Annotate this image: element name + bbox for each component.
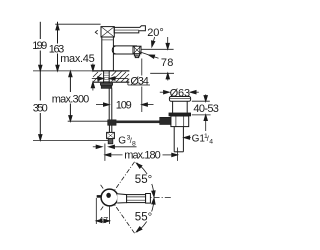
drain nut top band [169,113,191,116]
max.45 arrows [92,64,94,67]
drain body [172,101,174,113]
drain flange [169,97,190,102]
svg-text:max.300: max.300 [52,94,90,106]
plan view lever cone [117,194,126,203]
plan view left stub [97,195,102,198]
svg-text:20°: 20° [147,27,164,39]
109 extension line from aerator [141,59,143,76]
plan view lever bar [127,195,146,203]
svg-text:max.45: max.45 [60,53,94,65]
350 bottom reference line (hose end level) [33,139,108,141]
svg-text:40-53: 40-53 [193,103,219,115]
plan view swivel ray upper [101,161,136,210]
dimension 350 line [39,71,41,101]
plan view 47 dimension [95,198,97,224]
aerator [133,46,141,54]
dimension max.300 line [69,76,71,92]
svg-text:4: 4 [209,139,213,146]
hose union nut [107,132,115,138]
label G1 1/4 [184,136,190,139]
dimension 109 [96,104,104,106]
deck hatching left [93,72,102,82]
label 55 upper [135,174,153,184]
label G3/8 with leader [93,146,96,148]
plan view center dot [106,193,111,198]
pop-up rod below deck [108,88,110,119]
rod junction [108,120,116,126]
rod lower section [108,125,110,132]
svg-text:Ø34: Ø34 [130,75,149,87]
dimension 40-53 [192,100,210,102]
dimension 199 line [39,22,41,39]
svg-text:G: G [118,135,126,146]
svg-text:350: 350 [33,103,48,115]
spout [112,46,137,54]
label 55 lower [135,212,153,222]
dimension Ø63 [160,91,164,93]
svg-text:max.180: max.180 [124,150,161,162]
plan view axis centerline [120,197,173,199]
plan view lever tip [146,194,151,204]
20 degree vertical arrow [167,37,169,43]
plan view arc lower [137,200,154,232]
svg-text:8: 8 [132,140,136,147]
svg-text:55°: 55° [135,174,152,186]
linkage attachment on drain [160,117,171,124]
deck top line [33,70,93,72]
max.300 bottom reference line [68,120,108,122]
top reference line (199 level) [55,23,100,25]
arrow on sloped ray [148,53,154,58]
svg-text:47: 47 [99,215,109,225]
20 degree sloped ray [140,52,159,59]
deck hatching right [112,71,130,82]
mounting washer and nut [100,83,112,85]
drain tailpiece [173,127,175,152]
20 degree horizontal ray [141,48,174,50]
plan view swivel ray lower [101,185,136,234]
lever handle [114,26,145,33]
faucet cap [101,27,114,37]
drain nut body [171,116,189,127]
dimension Ø34 arrows [92,78,98,80]
horizontal linkage to drain [116,121,160,124]
plan view body circle [101,189,118,206]
svg-text:Ø63: Ø63 [170,87,191,99]
chevron mark at cap [95,30,97,34]
deck bottom line [93,81,130,83]
dimension max.180 [104,144,106,161]
threaded shank [103,71,105,88]
hose end fitting G3/8 [108,139,113,144]
svg-text:78: 78 [161,57,174,69]
20 degree leader arrow [153,37,155,44]
plan view arc upper [137,163,154,195]
faucet body [102,37,114,71]
dimension 163 line [57,22,59,44]
svg-text:109: 109 [116,99,132,111]
svg-text:199: 199 [32,40,47,52]
svg-text:55°: 55° [135,212,152,224]
